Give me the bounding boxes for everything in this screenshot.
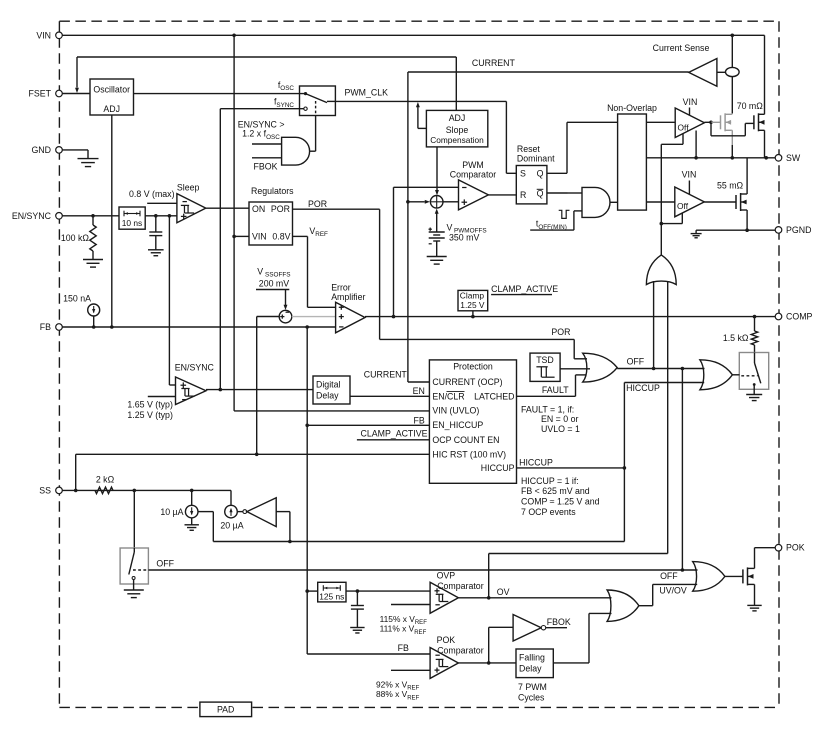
svg-text:Cycles: Cycles [518,692,545,702]
svg-text:Delay: Delay [316,391,339,401]
svg-text:Comparator: Comparator [450,170,497,180]
svg-text:Slope: Slope [446,125,469,135]
svg-text:CURRENT: CURRENT [472,58,516,68]
svg-text:Current Sense: Current Sense [653,43,710,53]
svg-text:VIN (UVLO): VIN (UVLO) [432,405,479,415]
svg-text:0.8 V (max): 0.8 V (max) [129,189,175,199]
svg-text:Sleep: Sleep [177,182,200,192]
svg-text:FBOK: FBOK [547,617,571,627]
svg-text:CURRENT: CURRENT [364,370,408,380]
svg-text:EN/SYNC: EN/SYNC [12,211,52,221]
svg-text:7 OCP events: 7 OCP events [521,507,576,517]
svg-text:Digital: Digital [316,379,340,389]
svg-text:EN/CLR: EN/CLR [432,391,464,401]
svg-text:Error: Error [331,282,351,292]
svg-text:Q: Q [537,169,544,179]
svg-text:FAULT = 1, if:: FAULT = 1, if: [521,404,574,414]
svg-text:POR: POR [551,327,570,337]
svg-text:ADJ: ADJ [449,113,466,123]
svg-text:COMP: COMP [786,312,813,322]
svg-text:EN = 0 or: EN = 0 or [541,414,578,424]
svg-text:COMP ≈ 1.25 V and: COMP ≈ 1.25 V and [521,497,600,507]
svg-text:1.65 V (typ): 1.65 V (typ) [127,399,173,409]
svg-text:350 mV: 350 mV [449,232,479,242]
svg-text:HICCUP: HICCUP [519,457,553,467]
svg-text:Comparator: Comparator [437,581,484,591]
svg-text:150 nA: 150 nA [63,294,91,304]
svg-text:VIN: VIN [36,30,51,40]
svg-text:Regulators: Regulators [251,186,294,196]
svg-text:125 ns: 125 ns [319,592,344,602]
svg-text:Amplifier: Amplifier [331,292,365,302]
svg-text:OFF: OFF [627,357,645,367]
svg-text:V: V [447,223,453,233]
svg-text:FAULT: FAULT [542,385,569,395]
svg-text:7 PWM: 7 PWM [518,682,547,692]
svg-text:Dominant: Dominant [517,153,555,163]
svg-text:1.5 kΩ: 1.5 kΩ [723,333,749,343]
svg-text:55 mΩ: 55 mΩ [717,181,744,191]
svg-text:70 mΩ: 70 mΩ [737,101,764,111]
svg-text:CLAMP_ACTIVE: CLAMP_ACTIVE [491,284,558,294]
svg-text:Falling: Falling [519,652,545,662]
svg-text:HICCUP = 1 if:: HICCUP = 1 if: [521,476,579,486]
svg-text:FSET: FSET [29,89,52,99]
svg-text:S: S [520,169,526,179]
svg-text:VIN: VIN [683,97,698,107]
svg-text:ADJ: ADJ [103,104,120,114]
svg-text:POK: POK [786,543,805,553]
svg-text:OV: OV [497,587,510,597]
svg-text:ON: ON [252,204,265,214]
svg-text:2 kΩ: 2 kΩ [96,475,115,485]
svg-text:200 mV: 200 mV [259,278,289,288]
svg-text:SS: SS [39,485,51,495]
svg-text:POR: POR [271,204,290,214]
svg-text:10 µA: 10 µA [160,507,183,517]
svg-text:Reset: Reset [517,144,541,154]
svg-text:HICCUP: HICCUP [626,383,660,393]
svg-text:Clamp: Clamp [460,290,485,300]
svg-text:Protection: Protection [453,361,493,371]
svg-text:100 kΩ: 100 kΩ [61,233,90,243]
svg-text:PWM_CLK: PWM_CLK [345,87,389,97]
svg-text:FB: FB [414,415,425,425]
svg-text:FB < 625 mV and: FB < 625 mV and [521,486,590,496]
svg-text:UV/OV: UV/OV [659,585,687,595]
svg-text:SW: SW [786,153,801,163]
svg-text:PGND: PGND [786,225,811,235]
svg-text:Off: Off [678,122,690,132]
svg-text:LATCHED: LATCHED [474,391,514,401]
svg-text:EN/SYNC: EN/SYNC [175,363,215,373]
svg-text:OCP COUNT EN: OCP COUNT EN [432,435,499,445]
svg-text:10 ns: 10 ns [122,218,143,228]
svg-text:HIC RST (100 mV): HIC RST (100 mV) [432,450,506,460]
svg-text:FB: FB [398,643,409,653]
svg-text:V: V [257,267,263,277]
svg-text:Non-Overlap: Non-Overlap [607,103,657,113]
svg-text:OVP: OVP [437,571,456,581]
svg-text:POR: POR [308,199,327,209]
svg-text:Off: Off [677,201,689,211]
svg-text:Compensation: Compensation [430,135,484,145]
svg-text:FB: FB [40,322,51,332]
svg-text:0.8V: 0.8V [272,232,290,242]
svg-text:VIN: VIN [682,170,697,180]
svg-text:Delay: Delay [519,664,542,674]
svg-text:OFF: OFF [660,571,678,581]
svg-text:CLAMP_ACTIVE: CLAMP_ACTIVE [361,428,428,438]
svg-text:PAD: PAD [217,705,234,715]
svg-text:20 µA: 20 µA [220,521,243,531]
svg-text:EN: EN [413,386,425,396]
svg-text:HICCUP: HICCUP [481,463,515,473]
svg-text:TSD: TSD [536,355,554,365]
svg-text:1.25 V (typ): 1.25 V (typ) [127,410,173,420]
svg-text:UVLO = 1: UVLO = 1 [541,424,580,434]
svg-text:R: R [520,190,526,200]
svg-text:Comparator: Comparator [437,645,484,655]
svg-text:PWM: PWM [462,160,484,170]
svg-text:OFF: OFF [156,558,174,568]
svg-text:GND: GND [31,145,51,155]
svg-text:Q: Q [537,189,544,199]
svg-text:POK: POK [437,635,456,645]
svg-text:CURRENT (OCP): CURRENT (OCP) [432,377,502,387]
svg-text:FBOK: FBOK [254,161,278,171]
svg-text:VIN: VIN [252,232,267,242]
svg-text:1.25 V: 1.25 V [460,300,485,310]
svg-text:EN_HICCUP: EN_HICCUP [432,420,483,430]
svg-text:Oscillator: Oscillator [93,85,130,95]
